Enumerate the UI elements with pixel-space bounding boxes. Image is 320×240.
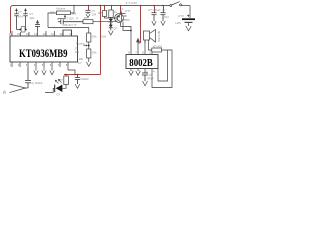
resistor R8 small (103, 11, 107, 17)
resistor R6 tuning top (87, 33, 91, 42)
node rail x111 (111, 5, 113, 7)
resistor R3 led (64, 76, 69, 85)
power arrow pin13 (36, 20, 39, 25)
capacitor C7 (75, 74, 80, 84)
svg-text:J?: J? (121, 8, 124, 12)
wire red drop x104.5 (104, 6, 106, 11)
svg-text:16: 16 (9, 32, 12, 36)
wire pot right terminal (71, 6, 75, 14)
IC U2 8002B (126, 55, 158, 69)
wire battery top (189, 6, 191, 19)
U1 bottom pin stubs (12, 62, 68, 70)
wire red drop x100 long (100, 6, 102, 75)
svg-text:100uF: 100uF (81, 77, 89, 81)
node pin5 (151, 49, 153, 51)
IC U1 KT0936MB9 (10, 36, 78, 62)
wire feedback outer (152, 50, 172, 88)
capacitor C1 (14, 14, 18, 30)
ground C9 (152, 21, 156, 25)
pot wiper arrow (58, 15, 66, 20)
ground pin4 (34, 70, 38, 75)
ground U2 pin1 (129, 71, 133, 75)
power arrow VDD left2 (24, 8, 27, 14)
wire red drop x111 (111, 6, 113, 11)
ground C7 (75, 84, 80, 88)
svg-text:KT0936MB9: KT0936MB9 (19, 46, 68, 60)
U2 bottom stubs (131, 69, 152, 75)
power arrow VDD left1 (15, 8, 18, 14)
wire node A run (48, 28, 89, 34)
wire tuning mid (88, 42, 90, 49)
speaker LS1 (144, 30, 156, 43)
resistor R5 (152, 48, 162, 52)
wire red bottom rail (64, 74, 101, 76)
antenna ANT1 (10, 84, 29, 93)
ground tuning (86, 62, 91, 66)
ground pin6 (50, 70, 54, 75)
wire pin8 to vcc bottom (68, 70, 75, 75)
capacitor C4 series (58, 19, 83, 24)
capacitor C8 antenna (25, 67, 31, 88)
U1 top pin stubs (12, 30, 72, 36)
svg-text:8002B: 8002B (129, 58, 153, 69)
svg-text:10k: 10k (92, 51, 97, 55)
wire tuning bottom to ground (88, 58, 90, 62)
ground under Q1 (108, 31, 113, 35)
node rail x120.5 (120, 5, 122, 7)
svg-text:3.7V: 3.7V (178, 14, 184, 18)
svg-text:Volume: Volume (56, 6, 66, 10)
svg-text:R?: R? (51, 10, 55, 14)
svg-text:8R 0.5W: 8R 0.5W (157, 31, 161, 42)
svg-text:+: + (187, 14, 190, 19)
wire crystal left (17, 29, 22, 31)
svg-text:13: 13 (34, 32, 37, 36)
svg-text:C? 100uF: C? 100uF (148, 8, 161, 12)
wire feedback inner (158, 50, 168, 81)
tuning wiper arrow (84, 44, 89, 46)
wire red tie (138, 42, 140, 44)
svg-text:11: 11 (51, 32, 54, 36)
ground U2 pin2 (136, 71, 140, 75)
capacitor C10 rail (161, 13, 166, 21)
ground C5 (86, 14, 90, 18)
svg-text:D?: D? (57, 93, 61, 97)
ground C6 (143, 81, 148, 86)
svg-text:Q?: Q? (114, 27, 118, 31)
capacitor C2 (23, 14, 27, 30)
svg-text:47uF: 47uF (147, 76, 154, 80)
svg-text:0.8V: 0.8V (101, 36, 106, 39)
svg-text:10k: 10k (92, 35, 97, 39)
node rail x104.5 (104, 5, 106, 7)
svg-text:14: 14 (26, 32, 29, 36)
Q1 arrow (118, 15, 120, 17)
ground pin5 (42, 67, 46, 75)
node pin8 vcc (74, 74, 76, 76)
wire red drop x140 to amp (140, 6, 142, 44)
wire red drop x120.5 (120, 6, 122, 15)
svg-text:R? 470: R? 470 (153, 44, 162, 48)
VCC red rail (11, 6, 170, 34)
svg-text:Tuning: Tuning (76, 41, 85, 45)
switch SW1 (170, 2, 190, 7)
node rail x100 (100, 5, 102, 7)
svg-text:3pF: 3pF (30, 16, 35, 20)
svg-text:PJ?: PJ? (126, 9, 131, 13)
svg-text:10k: 10k (75, 50, 80, 54)
wire red drop x163 (163, 6, 165, 13)
potentiometer RV1 (57, 11, 71, 15)
resistor R2 series (83, 20, 93, 24)
resistor R7 tuning bottom (87, 49, 91, 58)
svg-text:R?: R? (98, 11, 102, 15)
capacitor C5 at rail (86, 10, 91, 14)
transistor Q1 (105, 14, 124, 23)
svg-text:104: 104 (92, 12, 97, 16)
node crystal right (25, 29, 27, 31)
node base (110, 17, 112, 19)
svg-text:15: 15 (17, 32, 20, 36)
capacitor C9 rail (152, 13, 157, 21)
node tuning wiper (88, 45, 90, 47)
svg-text:C?: C? (78, 61, 82, 65)
LED D1 (45, 79, 66, 92)
wire red drop x88 (88, 6, 90, 11)
ground battery (186, 26, 191, 31)
svg-text:C?: C? (162, 8, 166, 12)
node rail x140 (140, 5, 142, 7)
svg-text:12: 12 (43, 32, 46, 36)
svg-text:104: 104 (18, 15, 23, 19)
svg-text:104: 104 (164, 15, 169, 19)
svg-text:10: 10 (60, 32, 63, 36)
U2 top stubs (138, 40, 152, 55)
svg-text:ny 100uF: ny 100uF (31, 81, 43, 85)
capacitor C3 (35, 25, 40, 32)
wire pot left terminal (48, 13, 57, 28)
ground C10 (161, 21, 165, 25)
node diodes (110, 23, 112, 25)
svg-text:500mF? J?: 500mF? J? (63, 23, 77, 27)
svg-text:3.7-4.2V: 3.7-4.2V (126, 1, 139, 5)
svg-text:A: A (3, 89, 6, 94)
svg-text:LiPo: LiPo (176, 21, 182, 25)
node crystal left (19, 29, 21, 31)
diode D3 (109, 25, 113, 31)
crystal X1 (21, 27, 25, 33)
diode D2 (109, 18, 113, 25)
wire speaker left (144, 40, 146, 43)
wire collector run (121, 22, 132, 54)
svg-text:S8550: S8550 (122, 18, 131, 22)
power arrow U2 pin7 (136, 38, 140, 43)
resistor R4 (109, 10, 113, 18)
node jack (130, 30, 132, 32)
wire pins10-9 bridge (63, 30, 72, 36)
capacitor C6 bypass (142, 73, 148, 81)
wire red drop x154 (154, 6, 156, 13)
svg-text:J?: J? (76, 17, 79, 21)
node rail x74 (73, 5, 75, 7)
wire chain to jack (93, 21, 122, 23)
wire battery bottom (188, 23, 190, 26)
wire speaker right (149, 40, 153, 50)
node rail x88 (88, 5, 90, 7)
jack J1 (122, 12, 132, 31)
svg-text:C? 104: C? 104 (65, 17, 74, 21)
